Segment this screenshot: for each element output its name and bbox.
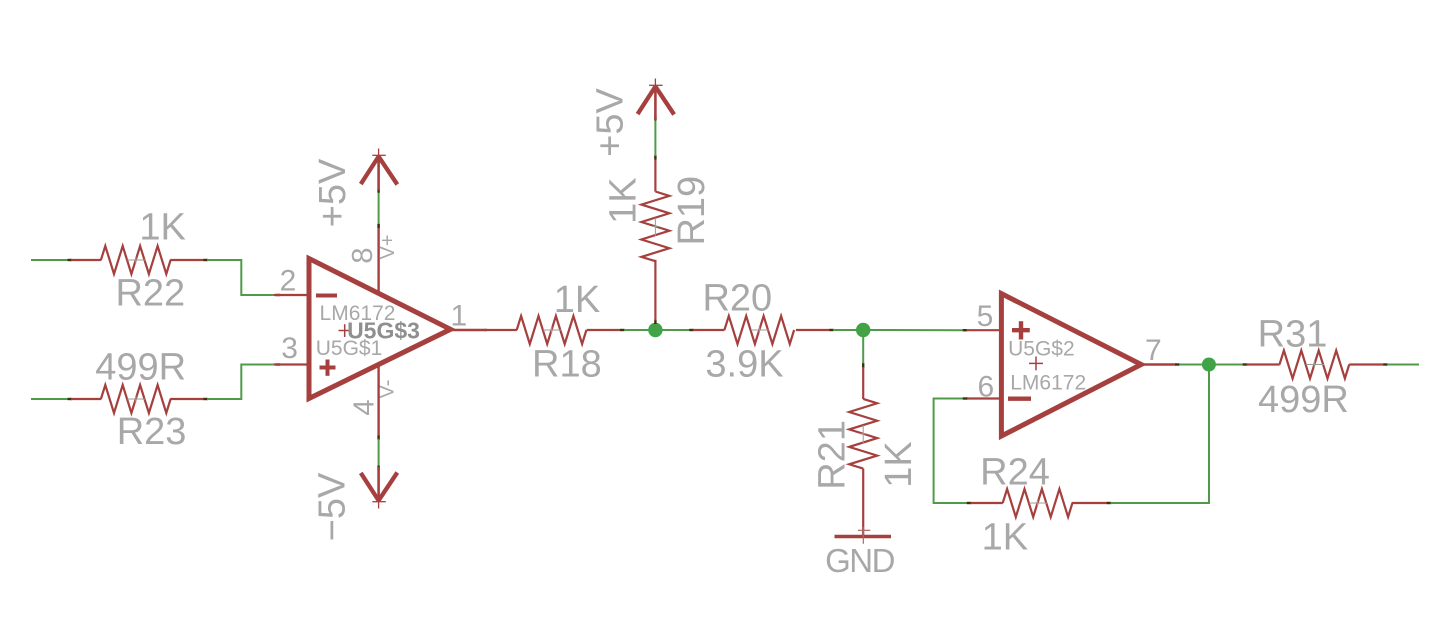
svg-text:LM6172: LM6172 xyxy=(1010,371,1086,394)
node C junction dot xyxy=(1202,358,1216,372)
supply +5V arrow (left) xyxy=(378,149,380,164)
wire R18 to node A xyxy=(624,329,655,331)
svg-text:R22: R22 xyxy=(115,272,185,314)
resistor R22 zigzag xyxy=(101,246,171,274)
op-amp U1 triangle xyxy=(309,259,451,399)
junction overlap V- arrow xyxy=(377,466,379,471)
resistor R20 zigzag xyxy=(724,316,794,344)
junction overlap +5V arrow top xyxy=(654,116,656,121)
svg-text:+5V: +5V xyxy=(312,158,354,227)
resistor R19 pin wires xyxy=(654,260,656,321)
wire R20 to node B xyxy=(833,329,863,331)
junction overlap R19 bottom xyxy=(654,320,656,325)
svg-text:R24: R24 xyxy=(980,451,1050,493)
junction overlap IN2-R23 left xyxy=(68,398,73,400)
svg-text:1: 1 xyxy=(450,300,467,333)
node A junction dot xyxy=(648,323,662,337)
wire input net IN2 (left segment) xyxy=(31,398,69,400)
svg-text:−5V: −5V xyxy=(312,472,354,541)
resistor R18 pin wires xyxy=(484,329,517,331)
junction overlap V+ arrow xyxy=(377,188,379,193)
supply -5V arrow xyxy=(378,494,380,509)
junction overlap wire-pin6 xyxy=(963,397,968,399)
svg-text:499R: 499R xyxy=(1258,379,1349,421)
wire node C to R31 xyxy=(1209,364,1244,366)
op-amp U1 plus symbol (pin 3) xyxy=(320,366,336,370)
junction overlap wire-pin2 xyxy=(276,294,281,296)
resistor R22 origin cross xyxy=(127,259,145,261)
svg-text:3.9K: 3.9K xyxy=(705,344,783,386)
op-amp U1 minus symbol (pin 2) xyxy=(316,294,337,298)
svg-text:R31: R31 xyxy=(1258,313,1328,355)
resistor R24 zigzag xyxy=(1003,489,1073,517)
wire net -5V xyxy=(378,439,380,467)
op-amp U2 plus symbol (pin 5) xyxy=(1012,328,1030,332)
wire IN2 to pin 3 (bend) xyxy=(207,365,277,400)
junction overlap pin7-wire xyxy=(1175,363,1180,365)
svg-text:1K: 1K xyxy=(139,206,185,248)
resistor R20 origin cross xyxy=(751,329,769,331)
junction overlap R24 right xyxy=(1107,502,1112,504)
junction overlap IN1-R22 left xyxy=(68,259,73,261)
resistor R22 pin wires xyxy=(71,259,101,261)
wire node B down to R21 xyxy=(862,330,864,364)
resistor R21 origin cross xyxy=(862,425,864,443)
op-amp U2 (U5G$2) pin 5 stub xyxy=(967,329,1002,331)
svg-text:1K: 1K xyxy=(982,517,1028,559)
resistor R18 origin cross xyxy=(543,329,561,331)
ground GND symbol xyxy=(835,535,892,538)
op-amp U2 pin 7 stub xyxy=(1141,363,1176,365)
resistor R18 zigzag xyxy=(517,316,587,344)
svg-text:1K: 1K xyxy=(603,177,645,223)
svg-text:V-: V- xyxy=(377,380,399,399)
resistor R23 zigzag xyxy=(101,385,171,413)
svg-text:GND: GND xyxy=(825,542,895,579)
svg-text:+5V: +5V xyxy=(590,88,632,157)
svg-text:3: 3 xyxy=(281,332,298,365)
op-amp U1 pin 1 stub xyxy=(452,329,487,331)
resistor R19 zigzag xyxy=(641,192,669,262)
supply +5V arrow (top) xyxy=(654,79,656,94)
resistor R24 origin cross xyxy=(1029,502,1047,504)
svg-text:1K: 1K xyxy=(878,441,920,487)
wire output net OUT xyxy=(1387,364,1419,366)
junction overlap R19 top xyxy=(654,155,656,160)
wire net +5V (left) xyxy=(378,192,380,225)
junction overlap R22-wire right xyxy=(204,259,209,261)
wire node A to R20 xyxy=(655,329,690,331)
svg-text:8: 8 xyxy=(347,247,379,263)
resistor R31 pin wires xyxy=(1247,363,1280,365)
op-amp U1 pin 4 stub (V-) xyxy=(377,366,379,437)
op-amp U1 origin cross xyxy=(339,330,352,332)
wire pin 7 to node C xyxy=(1179,364,1209,366)
wire node A up to R19 xyxy=(654,323,656,330)
junction overlap R31-output xyxy=(1383,363,1388,365)
junction overlap R20-node B xyxy=(829,329,834,331)
junction overlap V+ wire top xyxy=(377,224,379,229)
svg-text:5: 5 xyxy=(977,300,994,333)
wire R24 to output node (bend up) xyxy=(1111,365,1210,504)
svg-text:4: 4 xyxy=(349,399,381,415)
junction overlap R21 top xyxy=(862,363,864,368)
resistor R31 origin cross xyxy=(1306,364,1324,366)
junction overlap feedback-R24 left xyxy=(967,502,972,504)
resistor R31 zigzag xyxy=(1280,351,1350,379)
op-amp U2 triangle xyxy=(1001,294,1141,436)
op-amp U2 origin cross xyxy=(1029,362,1043,364)
svg-text:6: 6 xyxy=(977,371,994,404)
op-amp U1 pin 8 stub (V+) xyxy=(377,224,379,292)
op-amp U1 (U5G$3) pin 2 stub xyxy=(274,294,309,296)
resistor R20 pin wires xyxy=(693,329,725,331)
svg-text:2: 2 xyxy=(280,265,297,298)
resistor R19 origin cross xyxy=(654,218,656,236)
node B junction dot xyxy=(856,323,870,337)
resistor R21 pin wires xyxy=(862,367,864,399)
junction overlap node C-R31 xyxy=(1243,363,1248,365)
junction overlap node A-R20 xyxy=(689,329,694,331)
resistor R21 zigzag xyxy=(849,399,877,469)
svg-text:U5G$2: U5G$2 xyxy=(1008,338,1075,361)
svg-text:R19: R19 xyxy=(671,176,713,246)
junction overlap wire-pin3 xyxy=(276,363,281,365)
svg-text:1K: 1K xyxy=(554,279,600,321)
wire IN1 to pin 2 (bend) xyxy=(207,260,277,295)
resistor R23 pin wires xyxy=(71,398,101,400)
op-amp U2 minus symbol (pin 6) xyxy=(1008,397,1031,401)
svg-text:V+: V+ xyxy=(377,234,399,259)
junction overlap V- wire top xyxy=(377,436,379,441)
op-amp U2 pin 6 stub xyxy=(967,397,1002,399)
svg-text:R20: R20 xyxy=(702,278,772,320)
op-amp U1 pin 3 stub xyxy=(274,363,309,365)
svg-text:R23: R23 xyxy=(117,411,187,453)
svg-text:U5G$1: U5G$1 xyxy=(316,337,383,360)
svg-text:R18: R18 xyxy=(532,344,602,386)
wire net +5V (top) xyxy=(654,119,656,156)
junction overlap R23-wire right xyxy=(204,398,209,400)
svg-text:499R: 499R xyxy=(95,346,186,388)
wire node B to pin 5 xyxy=(863,329,963,331)
wire pin 6 feedback (bend down) xyxy=(934,399,968,504)
resistor R24 pin wires xyxy=(971,502,1003,504)
wire input net IN1 (left segment) xyxy=(31,259,69,261)
junction overlap R18-node A xyxy=(620,329,625,331)
svg-text:R21: R21 xyxy=(811,420,853,490)
svg-text:7: 7 xyxy=(1145,334,1162,367)
resistor R23 origin cross xyxy=(127,398,145,400)
junction overlap wire-pin5 xyxy=(963,329,968,331)
